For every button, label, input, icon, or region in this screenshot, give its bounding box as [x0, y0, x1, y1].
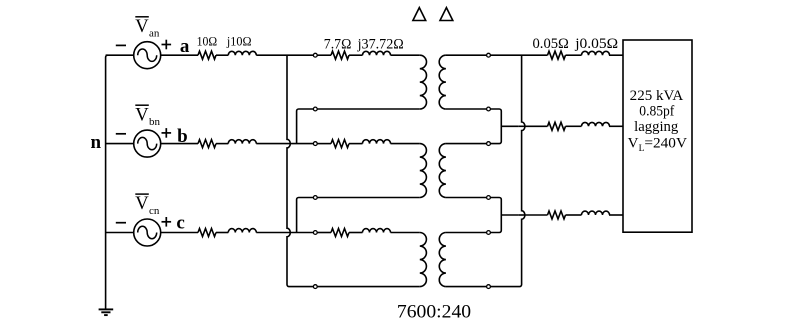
terminal primary winding 1 top	[313, 53, 317, 57]
svg-text:7.7Ω: 7.7Ω	[324, 37, 352, 53]
svg-text:=240V: =240V	[644, 136, 687, 152]
resistor 10ohm phase a	[198, 51, 216, 59]
terminal primary winding 2 bottom	[313, 196, 317, 200]
wire join secondary w2 bottom / w3 top	[490, 198, 501, 233]
wire secondary winding 3 top lead	[446, 232, 487, 234]
svg-text:j10Ω: j10Ω	[226, 34, 252, 49]
resistor 0.05ohm	[548, 211, 566, 219]
wire source Vcn to line impedance	[161, 232, 198, 234]
wire secondary winding 2 bottom lead	[446, 197, 487, 199]
load box	[623, 40, 692, 232]
minus sign Vbn	[116, 133, 126, 135]
wire under hop yo2	[518, 125, 525, 127]
resistor 7.7ohm winding 3	[317, 232, 331, 234]
wire primary winding 3 bottom lead	[317, 286, 420, 288]
svg-text:V: V	[135, 105, 149, 125]
minus sign Vcn	[116, 222, 126, 224]
svg-text:bn: bn	[149, 116, 161, 128]
wire secondary winding 1 bottom lead	[446, 108, 487, 110]
svg-text:V: V	[628, 136, 639, 152]
svg-text:j0.05Ω: j0.05Ω	[574, 36, 618, 52]
wire rail to source Vcn	[106, 232, 134, 234]
primary winding 1 coil	[420, 55, 427, 109]
wire to load box	[609, 54, 623, 56]
svg-text:a: a	[180, 36, 190, 57]
wire join secondary w1 bottom / w2 top	[490, 109, 501, 144]
wire rail to source Van	[106, 54, 134, 56]
label delta primary	[413, 8, 426, 21]
svg-text:0.85pf: 0.85pf	[639, 103, 674, 119]
secondary winding 1 coil	[439, 55, 446, 109]
wire secondary winding 3 bottom lead	[446, 286, 487, 288]
secondary winding 3 coil	[439, 233, 446, 287]
wire phase b to primary	[256, 143, 315, 145]
wire secondary delta vertical (w3 bottom to top row) with hops	[490, 55, 525, 286]
svg-text:lagging: lagging	[634, 119, 679, 135]
resistor 7.7ohm winding 1	[317, 54, 331, 56]
svg-text:an: an	[149, 28, 160, 40]
voltage source Van	[134, 42, 161, 69]
wire secondary winding 2 top lead	[446, 143, 487, 145]
wire to primary winding 1	[391, 54, 420, 56]
wire output b-phase from junction	[501, 125, 518, 127]
resistor 7.7ohm winding 2	[317, 143, 331, 145]
wire source Van to line impedance	[161, 54, 198, 56]
wire primary winding 2 bottom lead	[317, 197, 420, 199]
terminal primary winding 2 top	[313, 142, 317, 146]
svg-text:7600:240: 7600:240	[397, 302, 471, 323]
primary winding 3 coil	[420, 233, 427, 287]
terminal primary winding 3 top	[313, 231, 317, 235]
resistor 10ohm phase b	[198, 140, 216, 148]
svg-text:n: n	[91, 132, 102, 153]
wire under hop yo3	[518, 214, 525, 216]
wire primary delta vertical (a to winding3 bottom) with hops	[287, 55, 315, 286]
secondary winding 2 coil	[439, 144, 446, 198]
svg-text:j37.72Ω: j37.72Ω	[357, 37, 404, 53]
inductor j0.05ohm	[566, 125, 582, 127]
plus sign Vbn	[162, 132, 172, 134]
wire output c-phase from junction	[501, 214, 518, 216]
inductor j0.05ohm	[566, 54, 582, 56]
inductor j37.72ohm winding 3	[349, 232, 363, 234]
primary winding 2 coil	[420, 144, 427, 198]
resistor 0.05ohm	[548, 51, 566, 59]
plus sign Van	[162, 44, 172, 46]
wire phase c to primary	[256, 232, 315, 234]
terminal secondary winding 2 top	[487, 142, 491, 146]
terminal secondary winding 2 bottom	[487, 196, 491, 200]
inductor j0.05ohm	[566, 214, 582, 216]
inductor j10ohm phase b	[216, 143, 228, 145]
wire to primary winding 2	[391, 143, 420, 145]
wire to primary winding 3	[391, 232, 420, 234]
wire source Vbn to line impedance	[161, 143, 198, 145]
svg-text:10Ω: 10Ω	[197, 34, 218, 49]
svg-text:225 kVA: 225 kVA	[630, 88, 684, 104]
resistor 10ohm phase c	[198, 229, 216, 237]
wire primary winding 1 bottom lead	[317, 108, 420, 110]
ground	[99, 308, 114, 310]
terminal primary winding 1 bottom	[313, 107, 317, 111]
inductor j10ohm phase c	[216, 232, 228, 234]
resistor 0.05ohm	[548, 122, 566, 130]
svg-text:V: V	[135, 194, 149, 214]
wire left neutral rail	[106, 55, 108, 308]
inductor j37.72ohm winding 2	[349, 143, 363, 145]
wire to load box	[609, 214, 623, 216]
terminal secondary winding 1 top	[487, 53, 491, 57]
minus sign Van	[116, 44, 126, 46]
svg-text:cn: cn	[149, 205, 160, 217]
label delta secondary	[440, 8, 453, 21]
wire secondary winding 1 top lead	[446, 54, 487, 56]
svg-text:0.05Ω: 0.05Ω	[533, 36, 570, 52]
wire phase a to primary	[256, 54, 315, 56]
wire to load box	[609, 125, 623, 127]
wire jog winding2 bottom to phase c	[297, 198, 316, 233]
wire jog winding1 bottom to phase b	[297, 109, 316, 144]
terminal secondary winding 3 top	[487, 231, 491, 235]
terminal secondary winding 1 bottom	[487, 107, 491, 111]
voltage source Vbn	[134, 130, 161, 157]
svg-text:c: c	[176, 213, 184, 234]
terminal secondary winding 3 bottom	[487, 285, 491, 289]
terminal primary winding 3 bottom	[313, 285, 317, 289]
plus sign Vcn	[162, 221, 172, 223]
voltage source Vcn	[134, 219, 161, 246]
inductor j37.72ohm winding 1	[349, 54, 363, 56]
wire secondary top row to load	[490, 54, 547, 56]
svg-text:V: V	[135, 17, 149, 37]
wire rail to source Vbn	[106, 143, 134, 145]
inductor j10ohm phase a	[216, 54, 228, 56]
